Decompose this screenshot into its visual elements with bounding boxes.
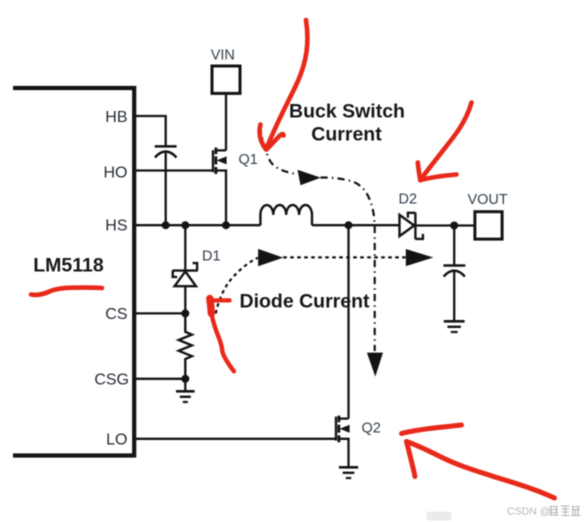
transistor Q1 NMOS buck switch (213, 148, 227, 226)
inductor L1 (260, 205, 312, 225)
red annotation: underline below LM5118 (31, 288, 102, 295)
wire HS node to Q2 drain (347, 225, 349, 418)
wire D1 anode to CS node (184, 286, 186, 313)
diode current arrowhead 1 (258, 249, 283, 266)
svg-text:LM5118: LM5118 (33, 255, 104, 277)
svg-text:Buck Switch: Buck Switch (289, 101, 405, 123)
wire HO pin to Q1 gate (134, 169, 213, 171)
wire D2 cathode to VOUT box (416, 224, 475, 226)
node junction Q2 drain on HS net (345, 221, 353, 229)
diode D1 schottky freewheel (172, 263, 197, 286)
red annotation: bottom arrow pointing to Q2 (402, 425, 555, 498)
wire VIN box to Q1 drain (225, 93, 227, 150)
svg-text:HS: HS (105, 218, 127, 235)
svg-text:Q1: Q1 (239, 152, 258, 168)
svg-text:D2: D2 (399, 192, 418, 208)
svg-text:VIN: VIN (211, 48, 235, 64)
transistor Q2 NMOS buck-boost switch (336, 416, 350, 467)
wire CSG pin (134, 378, 185, 380)
node junction output cap (450, 222, 458, 230)
wire LO pin to Q2 gate (134, 438, 336, 440)
node CSG junction (181, 375, 189, 383)
wire cap C2 to ground (453, 271, 455, 322)
svg-text:HO: HO (104, 165, 128, 182)
ground under Q2 source (339, 467, 358, 478)
svg-text:CSG: CSG (94, 372, 129, 389)
watermark CSDN (507, 506, 581, 518)
resistor R1 current sense (179, 313, 192, 378)
node HS junction with Q1 source (222, 221, 230, 229)
IC U1 LM5118 body (open left side) (13, 88, 134, 456)
capacitor C2 output (443, 266, 465, 277)
wire HB pin to bootstrap cap column (134, 116, 166, 146)
node HS junction with bootstrap cap (162, 221, 170, 229)
svg-text:CSDN @: CSDN @ (507, 506, 550, 518)
wire HS node to D1 cathode (184, 225, 186, 269)
svg-text:CS: CS (105, 306, 127, 323)
wire inductor to D2 anode (312, 224, 399, 226)
wire CS pin (134, 312, 185, 314)
wire HS pin to inductor (134, 224, 260, 226)
svg-text:Q2: Q2 (362, 421, 381, 437)
buck switch current dash-dot path (260, 127, 375, 352)
wire bootstrap cap to HS node (165, 152, 167, 226)
node HS junction with D1 (181, 221, 189, 229)
red annotation: squiggle marking diode current path (209, 299, 234, 372)
svg-text:LO: LO (106, 432, 127, 449)
capacitor C1 bootstrap (HB to HS) (155, 146, 177, 157)
svg-text:VOUT: VOUT (467, 192, 507, 208)
diode current dotted path (curved rise) (216, 258, 258, 314)
diode current arrowhead 2 (406, 249, 434, 266)
VOUT terminal box (475, 212, 502, 239)
wire CSG node to ground (184, 379, 186, 391)
svg-text:HB: HB (105, 109, 127, 126)
gray ui fragment bottom center (427, 512, 452, 521)
red annotation: arrow pointing to D2 (418, 103, 472, 181)
diode D2 schottky (to VOUT) (400, 213, 423, 240)
buck switch current arrowhead (rightward) (298, 170, 321, 186)
svg-text:Diode Current: Diode Current (240, 291, 371, 313)
ground under output cap (444, 321, 465, 332)
VIN terminal box (212, 66, 240, 93)
node CS junction (181, 309, 189, 317)
wire output node to cap C2 (453, 226, 455, 266)
svg-text:Current: Current (311, 123, 382, 145)
red annotation: top arrow pointing to Q1 switch path (260, 20, 308, 150)
svg-text:D1: D1 (202, 249, 221, 265)
ground under CSG (176, 391, 195, 402)
diode current dotted path (horizontal run) (283, 256, 405, 258)
buck switch current arrowhead (downward) (367, 353, 383, 377)
